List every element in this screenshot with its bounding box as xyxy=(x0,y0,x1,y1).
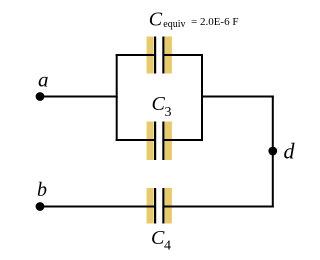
wire (left vertical of parallel section) xyxy=(116,54,118,141)
wire (right vertical through node d) xyxy=(272,96,274,208)
wire (lead from parallel section to node d) xyxy=(201,96,274,98)
wire (top branch, right segment) xyxy=(163,54,203,56)
wire (from node b to capacitor C4) xyxy=(40,206,155,208)
svg-text:C: C xyxy=(151,227,165,249)
node d (junction dot) xyxy=(268,147,277,156)
wire (bottom branch, right segment) xyxy=(163,139,203,141)
wire (from capacitor C4 to right vertical) xyxy=(163,206,273,208)
svg-text:C: C xyxy=(149,9,163,31)
svg-text:d: d xyxy=(284,139,296,164)
wire (lead from node a to parallel section) xyxy=(40,96,118,98)
svg-text:3: 3 xyxy=(165,105,172,120)
capacitor C4 (bottom wire) xyxy=(147,188,172,224)
node b (terminal dot) xyxy=(36,202,45,211)
svg-text:b: b xyxy=(37,179,47,201)
svg-text:equiv: equiv xyxy=(163,19,185,30)
svg-text:4: 4 xyxy=(164,239,171,254)
value label Cequiv = 2.0E-6 F xyxy=(149,9,239,31)
node a (terminal dot) xyxy=(36,92,45,101)
svg-text:= 2.0E-6 F: = 2.0E-6 F xyxy=(191,16,238,28)
component label C3 xyxy=(152,93,172,120)
wire (top branch, left segment) xyxy=(116,54,156,56)
capacitor C3 (bottom branch of parallel section) xyxy=(147,122,172,161)
wire (bottom branch, left segment) xyxy=(116,139,156,141)
svg-text:C: C xyxy=(152,93,166,115)
capacitor Cequiv (top branch) xyxy=(147,37,172,74)
svg-text:a: a xyxy=(38,68,49,92)
component label C4 xyxy=(151,227,171,254)
wire (right vertical of parallel section) xyxy=(201,54,203,141)
